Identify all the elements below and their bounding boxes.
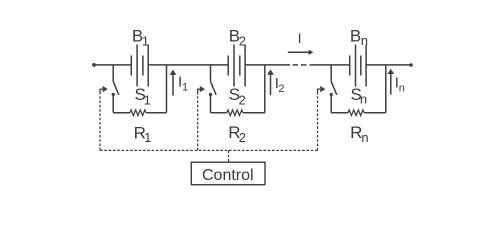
- wire bottom mid 2: [243, 112, 265, 114]
- control bus dashed horizontal: [100, 149, 318, 151]
- current arrow I1: [170, 70, 177, 96]
- label Bn: [350, 26, 368, 48]
- svg-text:2: 2: [239, 34, 246, 49]
- svg-text:1: 1: [142, 33, 149, 48]
- label S2: [229, 85, 246, 107]
- control line Sn dashed: [318, 86, 326, 151]
- wire right leg block n: [385, 65, 387, 113]
- svg-text:1: 1: [144, 130, 151, 145]
- svg-text:n: n: [361, 130, 368, 145]
- switch Sn: [330, 65, 337, 113]
- label I2: [275, 75, 285, 95]
- control line S2 dashed: [198, 86, 205, 151]
- wire dashed break: [293, 64, 307, 66]
- svg-text:B: B: [350, 26, 361, 45]
- label R2: [228, 123, 246, 145]
- svg-text:n: n: [360, 91, 367, 106]
- wire right leg block2: [264, 65, 266, 113]
- wire top segment 5: [366, 64, 411, 66]
- label B1: [132, 27, 149, 49]
- wire bottom right 2: [364, 112, 386, 114]
- svg-text:n: n: [361, 33, 368, 48]
- node right dot: [409, 63, 413, 67]
- label S1: [135, 85, 151, 107]
- svg-text:1: 1: [182, 82, 188, 94]
- wire top segment 2: [148, 64, 228, 66]
- switch S1: [112, 65, 119, 113]
- wire bottom left 2: [146, 112, 166, 114]
- control stub to box dashed: [228, 150, 230, 162]
- label I1: [178, 74, 188, 94]
- resistor R2: [227, 110, 243, 116]
- svg-text:2: 2: [239, 130, 246, 145]
- wire top segment 3: [245, 64, 290, 66]
- svg-text:2: 2: [278, 83, 284, 95]
- control line S1 dashed: [100, 86, 108, 151]
- svg-text:Control: Control: [202, 167, 254, 184]
- svg-text:I: I: [298, 30, 302, 46]
- label B2: [229, 26, 246, 48]
- wire right leg block1: [166, 65, 168, 113]
- svg-text:1: 1: [144, 92, 151, 107]
- battery B2: [228, 45, 245, 87]
- control box: [191, 162, 265, 185]
- label Rn: [350, 123, 369, 145]
- wire bottom right 1: [331, 112, 348, 114]
- label In: [395, 74, 405, 94]
- node left dot: [92, 63, 96, 67]
- current arrow I main: [288, 50, 314, 55]
- wire top segment 1: [94, 64, 131, 66]
- resistor Rn: [348, 110, 364, 116]
- switch S2: [209, 65, 216, 113]
- resistor R1: [130, 110, 146, 116]
- wire bottom mid 1: [211, 112, 227, 114]
- label Sn: [351, 85, 368, 107]
- battery B1: [131, 45, 148, 87]
- current arrow In: [387, 69, 394, 95]
- wire top segment 4: [310, 64, 350, 66]
- svg-text:2: 2: [239, 92, 246, 107]
- wire bottom left 1: [113, 112, 130, 114]
- svg-text:n: n: [399, 83, 405, 95]
- current arrow I2: [267, 69, 274, 95]
- label R1: [134, 124, 152, 146]
- battery Bn: [350, 45, 366, 87]
